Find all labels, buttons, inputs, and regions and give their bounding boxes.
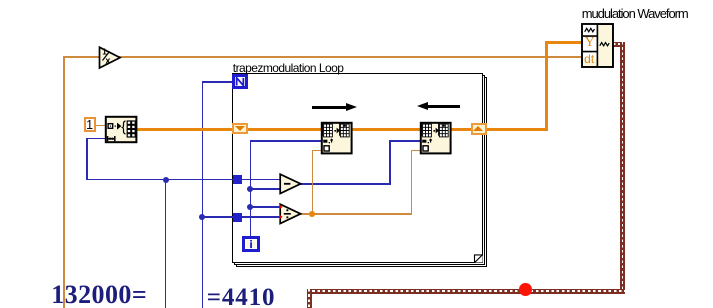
- breakpoint red dot on waveform wire: [519, 283, 532, 296]
- wire: array vertical riser to build-waveform: [545, 41, 548, 131]
- free label 132000=: [51, 282, 147, 308]
- for-loop frame back layer 2: [236, 77, 487, 267]
- blue tunnel 2 (left border): [233, 213, 242, 222]
- wire: vertical drop from junction to bottom edge: [165, 179, 167, 308]
- for-loop frame main: [232, 73, 483, 263]
- build waveform node: [581, 23, 613, 67]
- divide function: [279, 203, 302, 225]
- wire: constant 1 to initialize-array element input: [95, 125, 106, 127]
- junction dot: [199, 214, 205, 220]
- wire: riser to node1 element input: [312, 150, 314, 214]
- blue tunnel 1 (left border): [233, 175, 242, 184]
- wire: tunnel2 to divide lower input: [241, 216, 281, 218]
- junction dot: [247, 186, 253, 192]
- decor arrow right (above node1): [312, 106, 348, 109]
- for-loop resize fold corner: [472, 252, 484, 264]
- wire: riser to node2 element input: [411, 150, 413, 214]
- label: mudulation Waveform: [582, 6, 688, 21]
- wire: divide output horizontal: [300, 213, 412, 215]
- junction dot: [163, 177, 169, 183]
- subtract function: [279, 173, 302, 195]
- numeric constant 1: [84, 117, 96, 133]
- wire: i branch to divide upper input: [250, 206, 282, 208]
- wire: sample-rate scalar vertical (left edge, orange): [63, 57, 65, 308]
- wire: waveform out of build-waveform: [613, 42, 625, 47]
- junction dot orange: [309, 211, 315, 217]
- wire: iteration i vertical: [250, 141, 252, 237]
- for-loop frame back layer 1: [234, 75, 485, 265]
- wire: into replace-node2 index input: [389, 140, 421, 142]
- wire: waveform vertical run down right side: [620, 42, 625, 294]
- wire: waveform drop to bottom edge: [307, 289, 312, 308]
- wire: array from out-tunnel to corner: [486, 128, 548, 131]
- svg-text:x: x: [106, 55, 111, 65]
- wire: waveform horizontal run along bottom: [307, 289, 626, 294]
- junction dot: [247, 204, 253, 210]
- wire: i branch to subtract lower input: [250, 188, 281, 190]
- wire: into 1/x input: [63, 56, 100, 58]
- wire: tunnel1 to subtract upper input: [241, 179, 281, 181]
- replace array subset node 1: [320, 121, 353, 155]
- reciprocal 1/x function: [98, 46, 122, 70]
- output tunnel (auto-index out): [471, 123, 487, 135]
- decor arrow left (above node2): [424, 105, 460, 108]
- wire: array into Y input: [545, 41, 583, 44]
- loop count terminal N: [232, 74, 248, 89]
- wire: into node2 element input: [411, 150, 422, 152]
- wire: array out of initialize-array (thick orange): [137, 128, 233, 131]
- wire: horizontal to tunnel 2: [202, 216, 234, 218]
- wire: horizontal to tunnel 1: [86, 179, 233, 181]
- input tunnel (auto-index in): [232, 123, 248, 134]
- wire: 1/x output to dt input: [119, 56, 582, 58]
- iteration terminal i: [242, 236, 260, 252]
- label: trapezmodulation Loop: [233, 61, 344, 75]
- wire: horizontal into N terminal: [202, 81, 233, 83]
- wire: init-array dim input horizontal: [86, 138, 106, 140]
- wire: N source vertical from bottom edge: [202, 81, 204, 308]
- wire: i to replace-node1 index input: [250, 140, 323, 142]
- initialize array node: [104, 115, 138, 144]
- wire: subtract output vertical riser: [389, 141, 391, 185]
- wire: subtract output horizontal: [300, 183, 391, 185]
- wire: into node1 element input: [312, 150, 323, 152]
- free label =4410: [207, 285, 276, 308]
- wire: array main run inside loop: [248, 128, 472, 131]
- replace array subset node 2: [419, 121, 452, 155]
- wire: blue vertical below constant: [86, 138, 88, 181]
